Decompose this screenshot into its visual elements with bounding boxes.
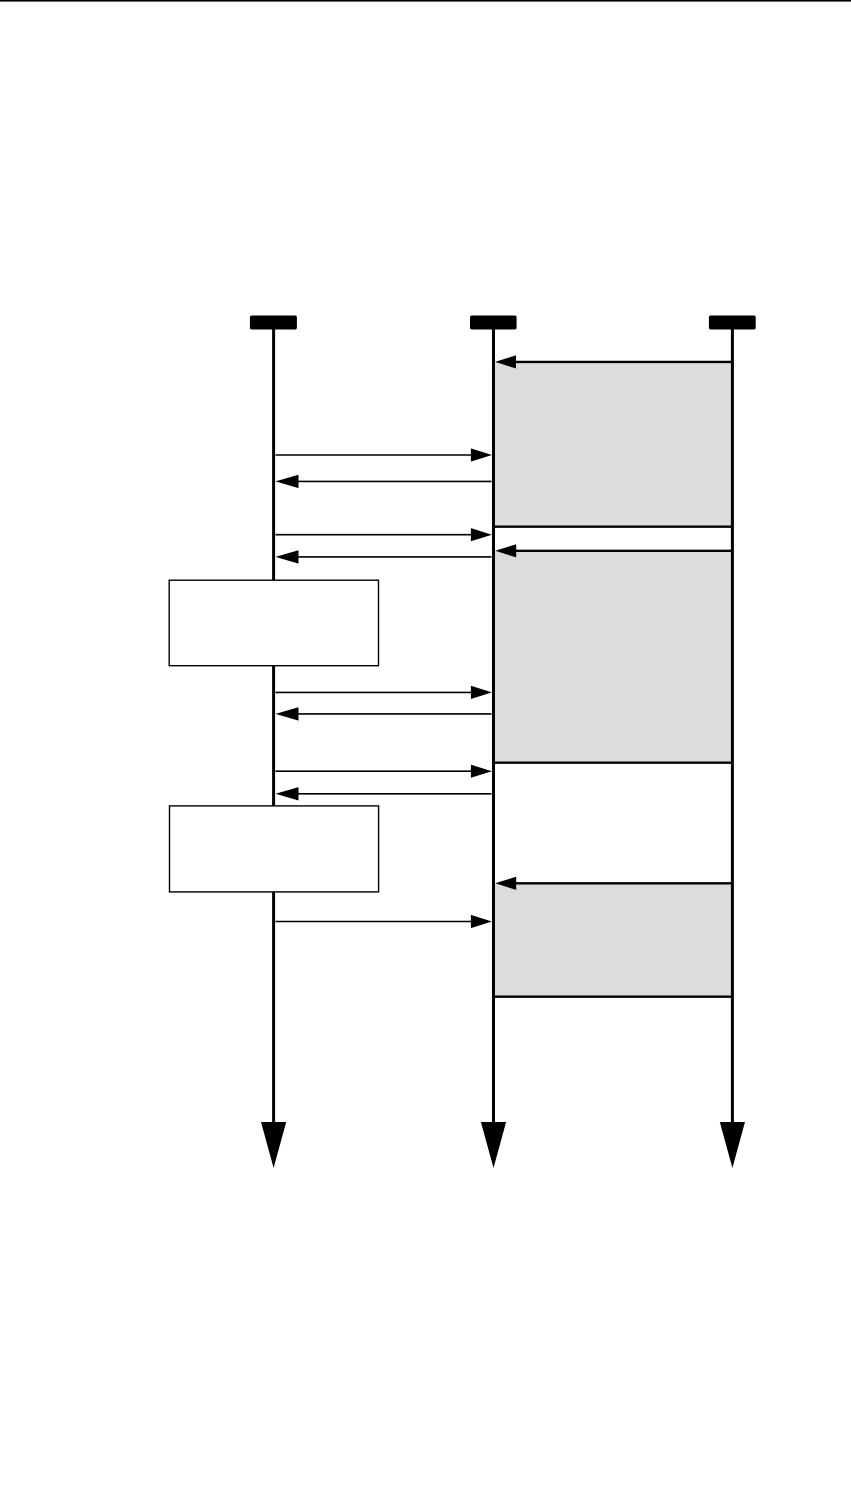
message M7 arrowhead xyxy=(471,686,492,699)
lifeline L2 head bar xyxy=(470,316,517,330)
message M6 arrowhead xyxy=(276,550,299,563)
message M4 shaft (left to middle) xyxy=(276,534,474,536)
activation region G1 (middle-right, gray) xyxy=(494,363,733,527)
lifeline L1 line xyxy=(272,330,275,1124)
message M2 arrowhead xyxy=(471,448,492,461)
message M10 shaft (middle to left) xyxy=(294,793,492,795)
message M3 shaft (middle to left) xyxy=(294,480,492,482)
message M7 shaft (left to middle) xyxy=(276,691,474,693)
message M8 arrowhead xyxy=(276,707,299,720)
activation region G2 (middle-right, gray) xyxy=(494,551,733,762)
message M11 arrowhead xyxy=(495,877,516,890)
lifeline L3 head bar xyxy=(709,316,756,330)
lifeline L2 line xyxy=(492,330,495,1124)
message M6 shaft (middle to left) xyxy=(294,556,492,558)
message M3 arrowhead xyxy=(276,475,299,488)
lifeline L1 head bar xyxy=(250,316,297,330)
lifeline L3 line xyxy=(731,330,734,1124)
note box B2 (left lifeline) xyxy=(170,806,379,892)
lifeline L3 end arrowhead xyxy=(720,1122,745,1168)
activation region G3 (middle-right, gray) xyxy=(494,884,733,996)
message M1 arrowhead xyxy=(495,355,516,368)
lifeline L1 end arrowhead xyxy=(261,1122,286,1168)
message M9 shaft (left to middle) xyxy=(276,770,474,772)
message M4 arrowhead xyxy=(471,528,492,541)
message M9 arrowhead xyxy=(471,765,492,778)
message M1 shaft (right to middle) xyxy=(514,361,732,363)
message M11 shaft (right to middle) xyxy=(514,882,732,884)
top rule xyxy=(0,0,851,2)
message M5 shaft (right to middle) xyxy=(514,550,732,552)
activation region G1 bottom border xyxy=(494,526,733,528)
message M8 shaft (middle to left) xyxy=(294,713,492,715)
activation region G3 bottom border xyxy=(494,996,733,998)
message M2 shaft (left to middle) xyxy=(276,454,474,456)
message M12 shaft (left to middle) xyxy=(276,921,474,923)
lifeline L2 end arrowhead xyxy=(481,1122,506,1168)
message M5 arrowhead xyxy=(495,544,516,557)
message M10 arrowhead xyxy=(276,787,299,800)
note box B1 (left lifeline) xyxy=(169,580,378,666)
message M12 arrowhead xyxy=(471,915,492,928)
activation region G2 bottom border xyxy=(494,762,733,764)
